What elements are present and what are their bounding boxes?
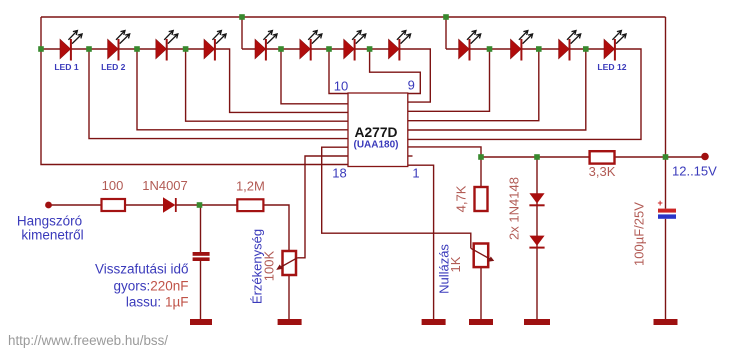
wire right supply drop to capacitor xyxy=(665,17,667,209)
node LED9-LED10 junction xyxy=(487,46,493,52)
ground at diode branch xyxy=(524,319,550,325)
diode D13 1N4148 xyxy=(529,193,544,205)
capacitor C 220nF plates xyxy=(193,252,210,261)
wire 1,2M to Erzekenyseg pot xyxy=(263,205,289,251)
svg-text:gyors:220nF: gyors:220nF xyxy=(113,279,188,294)
wire LED6 cathode to IC pin 10 xyxy=(329,49,348,94)
node LED2-LED3 junction xyxy=(134,46,140,52)
wire capacitor 100uF to ground xyxy=(665,219,667,319)
svg-text:18: 18 xyxy=(332,166,346,181)
svg-text:1K: 1K xyxy=(448,256,463,272)
LED D1 xyxy=(60,31,82,61)
resistor 100 xyxy=(102,199,126,211)
node top rail chain C junction xyxy=(443,14,449,20)
svg-text:Hangszóró: Hangszóró xyxy=(17,214,82,229)
node LED1 anode junction xyxy=(38,46,44,52)
svg-text:1N4007: 1N4007 xyxy=(142,178,188,193)
node LED5-LED6 junction xyxy=(278,46,284,52)
wire LED9 cathode tap to IC xyxy=(408,49,490,111)
LED D11 xyxy=(559,31,581,61)
node input filter junction xyxy=(197,202,203,208)
potentiometer Nullazas 1K body xyxy=(474,244,489,268)
svg-text:(UAA180): (UAA180) xyxy=(353,140,398,151)
node LED11-LED12 junction xyxy=(583,46,589,52)
svg-text:LED 12: LED 12 xyxy=(597,62,626,72)
LED D9 xyxy=(459,31,481,61)
svg-text:3,3K: 3,3K xyxy=(589,164,616,179)
svg-text:+: + xyxy=(658,198,663,208)
wire LED10 cathode tap to IC xyxy=(408,49,539,121)
LED D10 xyxy=(511,31,533,61)
node supply rail capacitor junction xyxy=(663,154,669,160)
ground at 220nF capacitor xyxy=(190,319,212,325)
LED D7 xyxy=(344,31,366,61)
wire LED5 cathode tap to IC xyxy=(281,49,348,104)
potentiometer Nullazas wiper arrow xyxy=(471,248,494,261)
wire bottom supply rail right of 3.3K xyxy=(615,156,702,158)
resistor 4,7K xyxy=(475,187,488,211)
diode 1N4007 xyxy=(163,197,176,212)
terminal supply 12..15V xyxy=(701,153,709,161)
wire IC right stub pin xyxy=(408,155,413,157)
resistor 3,3K xyxy=(590,151,615,163)
svg-text:http://www.freeweb.hu/bss/: http://www.freeweb.hu/bss/ xyxy=(8,333,168,348)
wire LED chain A with LED4 cathode to IC pin row xyxy=(41,49,348,112)
op-amp U1 A277D body xyxy=(348,93,408,167)
node supply rail 4.7K junction xyxy=(478,154,484,160)
svg-text:kimenetről: kimenetről xyxy=(21,228,83,243)
LED D6 xyxy=(300,31,322,61)
svg-text:2x 1N4148: 2x 1N4148 xyxy=(507,177,522,240)
wire bottom supply rail left of 3.3K xyxy=(481,156,590,158)
ground at 100uF capacitor xyxy=(654,319,678,325)
svg-text:4,7K: 4,7K xyxy=(454,185,469,212)
node LED10-LED11 junction xyxy=(536,46,542,52)
wire Erzekenyseg pot to ground xyxy=(288,275,290,319)
ground at Erzekenyseg pot xyxy=(278,319,302,325)
svg-text:lassu: 1µF: lassu: 1µF xyxy=(126,295,189,310)
node top rail chain B junction xyxy=(239,14,245,20)
wire IC pin 18 to Nullazas wiper xyxy=(322,147,471,248)
wire LED5 anode drop xyxy=(241,17,243,49)
node LED6-LED7 junction xyxy=(326,46,332,52)
node LED1-LED2 junction xyxy=(86,46,92,52)
svg-text:100K: 100K xyxy=(262,250,277,281)
svg-text:100: 100 xyxy=(102,178,124,193)
LED D12 xyxy=(604,31,626,61)
capacitor C 100uF electrolytic xyxy=(658,198,677,219)
svg-text:12..15V: 12..15V xyxy=(672,164,717,179)
LED D3 xyxy=(156,31,178,61)
LED D2 xyxy=(108,31,130,61)
wire node to capacitor 220nF xyxy=(200,205,202,252)
svg-text:1: 1 xyxy=(412,166,419,181)
node supply rail diode junction xyxy=(534,154,540,160)
wire diode to node xyxy=(177,204,238,206)
wire input terminal to resistor 100 xyxy=(52,204,102,206)
wire LED11 cathode tap to IC xyxy=(408,49,586,130)
svg-text:9: 9 xyxy=(408,78,415,93)
LED D4 xyxy=(204,31,226,61)
resistor 1,2M xyxy=(237,199,263,211)
LED D8 xyxy=(389,31,411,61)
wire IC left pin to Erzekenyseg wiper xyxy=(297,156,348,258)
wire top supply rail xyxy=(41,16,666,18)
wire resistor 100 to diode xyxy=(125,204,163,206)
node LED3-LED4 junction xyxy=(183,46,189,52)
terminal input from speaker xyxy=(45,202,52,209)
LED D5 xyxy=(255,31,277,61)
wire diode branch vertical xyxy=(536,157,538,319)
svg-text:1,2M: 1,2M xyxy=(236,179,265,194)
svg-text:100µF/25V: 100µF/25V xyxy=(632,202,647,266)
wire LED chain C with LED12 cathode to IC right xyxy=(408,49,641,139)
wire LED9 anode drop xyxy=(445,17,447,49)
svg-text:LED 1: LED 1 xyxy=(54,62,79,72)
potentiometer Erzekenyseg 100K body xyxy=(283,251,297,275)
svg-text:Visszafutási idő: Visszafutási idő xyxy=(95,262,189,277)
wire Nullazas pot to ground xyxy=(480,267,482,319)
wire capacitor 220nF to ground xyxy=(200,261,202,319)
wire LED7 cathode to IC pin 9 xyxy=(370,49,421,94)
wire LED3 cathode tap to IC xyxy=(186,49,348,121)
wire LED1 cathode tap to IC xyxy=(89,49,348,139)
wire LED chain B with LED8 cathode to IC right xyxy=(242,49,430,102)
ground at IC pin 1 xyxy=(422,319,446,325)
wire IC pin 1 to ground xyxy=(408,165,434,319)
wire left rail vertical down to pin row 8 xyxy=(41,17,348,165)
svg-text:LED 2: LED 2 xyxy=(101,62,126,72)
wire IC pin to supply node and 4.7K xyxy=(408,147,481,187)
wire LED2 cathode tap to IC xyxy=(137,49,348,130)
ground at Nullazas pot xyxy=(469,319,493,325)
potentiometer Erzekenyseg wiper arrow xyxy=(276,258,297,270)
diode D14 1N4148 xyxy=(529,236,544,248)
node LED7-LED8 junction xyxy=(367,46,373,52)
svg-text:10: 10 xyxy=(334,79,348,94)
svg-text:A277D: A277D xyxy=(355,125,398,140)
